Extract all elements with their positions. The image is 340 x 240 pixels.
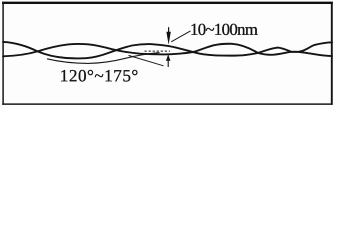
border left: [2, 2, 4, 105]
fiber beta (lower-left to upper-right): [3, 42, 332, 56]
gap dashed line: [145, 50, 171, 52]
svg-text:120°~175°: 120°~175°: [60, 66, 139, 85]
leader branch down to arrow stem: [129, 55, 164, 65]
border bottom: [2, 103, 332, 105]
border top: [2, 2, 333, 4]
border right: [331, 2, 333, 105]
svg-text:10~100nm: 10~100nm: [190, 20, 258, 39]
up arrow (gap dimension, lower): [166, 54, 170, 61]
leader to nm label: [171, 31, 190, 42]
fiber alpha (upper-left to lower-right): [3, 42, 332, 58]
down arrow (gap dimension, upper): [168, 27, 170, 32]
angle leader arc: [47, 53, 160, 64]
